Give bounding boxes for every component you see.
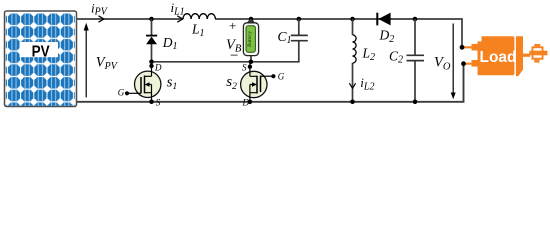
svg-text:D2: D2 — [379, 28, 395, 45]
svg-text:G: G — [118, 87, 125, 97]
node: top junction of D1 — [149, 17, 154, 22]
current arrow iPV — [99, 16, 104, 22]
MOSFET S2 symbol — [260, 76, 262, 92]
node: S2 source rail junction — [249, 60, 254, 65]
svg-text:VPV: VPV — [96, 55, 119, 73]
node: S2 source pin dot — [248, 65, 252, 69]
node: L2 top junction — [350, 17, 355, 22]
wire: bottom rail from PV to load corner — [77, 64, 464, 102]
node: C2 top junction — [413, 17, 418, 22]
node: load plus terminal — [460, 45, 465, 50]
node: S2 gate pin dot — [271, 74, 275, 78]
svg-text:L2: L2 — [362, 46, 376, 63]
load flange — [516, 36, 523, 76]
svg-text:PV: PV — [32, 44, 51, 61]
inductor L1 — [183, 14, 215, 19]
svg-text:D1: D1 — [162, 35, 178, 52]
battery VB leads — [250, 19, 252, 62]
load gear — [532, 46, 544, 59]
svg-text:iL1: iL1 — [171, 0, 185, 17]
svg-text:S: S — [156, 98, 161, 108]
svg-text:+: + — [228, 18, 237, 33]
node: L2 bottom junction — [350, 100, 355, 105]
load shaft — [523, 54, 530, 57]
capacitor C2 — [414, 19, 416, 102]
battery VB body — [247, 21, 254, 23]
wire: middle rail (D1/S1-S2/C1 net) — [152, 41, 299, 62]
voltage arrow VO — [452, 24, 454, 94]
S2 gate lead — [261, 75, 274, 77]
svg-text:VO: VO — [434, 55, 451, 73]
node: S1 gate pin dot — [125, 91, 129, 95]
node: load minus terminal — [461, 61, 466, 66]
load body — [478, 36, 515, 75]
S1 gate lead — [127, 92, 141, 94]
PV panel cells — [6, 13, 75, 106]
current arrow iL1 — [177, 16, 182, 22]
load tabs — [472, 44, 478, 51]
S1 drain lead — [151, 62, 153, 77]
node: S1 drain rail junction — [149, 60, 154, 65]
current arrow iL2 — [349, 83, 355, 88]
node: S1 drain pin dot — [149, 64, 153, 68]
svg-text:s2: s2 — [226, 74, 237, 92]
node: C1 top junction — [297, 17, 302, 22]
svg-text:D: D — [154, 63, 162, 73]
node: S2 drain pin dot — [248, 100, 253, 105]
svg-text:−: − — [229, 48, 239, 64]
load wire stubs (orange) — [462, 47, 472, 63]
svg-text:D: D — [242, 98, 250, 108]
node: S1 source pin dot — [149, 100, 154, 105]
MOSFET S1 symbol — [140, 77, 142, 93]
svg-text:L1: L1 — [191, 22, 205, 39]
svg-text:S: S — [242, 63, 247, 73]
voltage arrow VPV — [85, 29, 87, 97]
svg-text:Load: Load — [479, 49, 516, 66]
PV label — [20, 42, 59, 57]
PV panel frame — [5, 11, 77, 107]
svg-text:s1: s1 — [167, 74, 178, 92]
svg-text:iL2: iL2 — [360, 75, 374, 92]
MOSFET S2 circle — [241, 71, 267, 97]
diode D2 — [376, 13, 378, 26]
node: battery plus junction — [249, 17, 254, 22]
diode D1 — [151, 19, 153, 62]
svg-text:Battery: Battery — [247, 30, 253, 46]
svg-text:iPV: iPV — [91, 0, 109, 17]
node: C2 bottom junction — [413, 100, 418, 105]
capacitor C1 — [298, 19, 300, 35]
S1 source lead — [151, 93, 153, 102]
S2 drain lead — [249, 93, 251, 102]
S2 source lead — [249, 62, 251, 77]
svg-text:C1: C1 — [278, 29, 292, 46]
MOSFET S1 circle — [135, 71, 161, 97]
inductor L2 — [352, 19, 354, 102]
svg-text:C2: C2 — [389, 49, 403, 66]
wire: top rail from PV to load corner — [77, 19, 462, 47]
svg-text:G: G — [278, 72, 285, 82]
